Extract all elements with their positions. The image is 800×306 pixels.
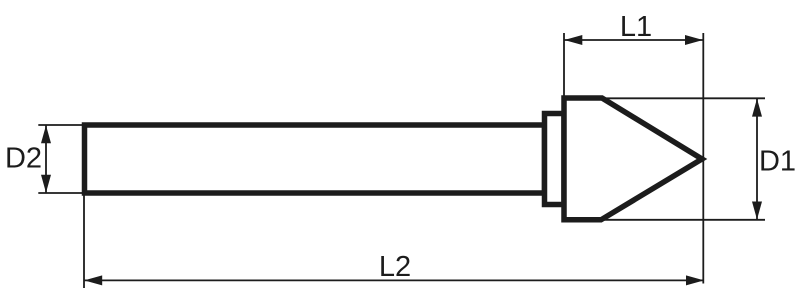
svg-text:D2: D2	[5, 143, 42, 175]
svg-text:L2: L2	[379, 251, 411, 283]
svg-text:D1: D1	[759, 146, 796, 178]
svg-text:L1: L1	[620, 11, 652, 43]
